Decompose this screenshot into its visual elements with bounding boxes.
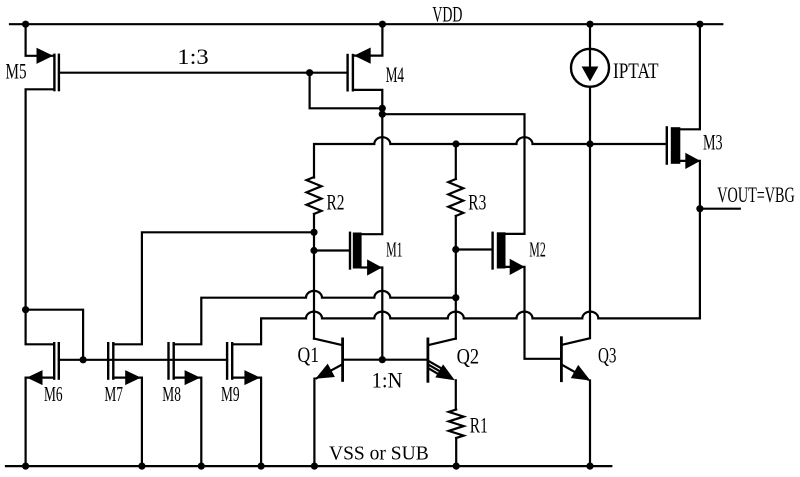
transistor M9 source arrow <box>244 370 260 385</box>
transistor M9 channel bar <box>231 343 233 378</box>
transistor Q3 base bar <box>560 338 563 381</box>
wire: common gate bus M6-M9 <box>59 359 227 361</box>
junction: node / M2 gate <box>452 246 459 253</box>
svg-text:M2: M2 <box>529 237 546 261</box>
wire: M7 source to VSS <box>113 378 141 467</box>
wire: M8 source to VSS <box>174 378 202 467</box>
wire: M8 drain to node A upper bus (with hops) <box>174 291 456 344</box>
wire: M1 source down to Q1/Q2 base line <box>362 268 383 360</box>
junction: R1 / VSS <box>453 463 460 470</box>
transistor Q1 collector <box>314 339 343 346</box>
transistor M4 gate bar <box>346 55 348 90</box>
wire: M5 drain down left rail to M6 drain <box>26 89 54 344</box>
svg-text:M4: M4 <box>386 62 405 87</box>
svg-text:VOUT=VBG: VOUT=VBG <box>717 182 795 207</box>
wire: VDD to M5 source <box>26 23 54 56</box>
junction: VDD / IPTAT <box>586 21 593 28</box>
wire: Q1-Q2 base line <box>343 359 428 361</box>
transistor M8 gate bar <box>167 343 169 378</box>
label M9 <box>221 382 240 406</box>
junction: M5 drain / M6 drain / M6 gate link <box>22 306 29 313</box>
junction: node / M1 gate <box>310 247 317 254</box>
wire: R3 top lead <box>455 144 457 179</box>
current source IPTAT arrow <box>582 52 599 82</box>
current source IPTAT bottom lead <box>589 87 591 144</box>
junction: line / R3 top <box>452 140 459 147</box>
label IPTAT <box>613 58 659 83</box>
transistor M5 channel bar <box>53 55 55 90</box>
wire: M6 drain-gate diode link <box>26 310 84 360</box>
transistor M5 source arrow <box>37 48 54 64</box>
wire: M3 drain up to VDD <box>680 23 700 129</box>
wire: VOUT stub <box>700 208 740 210</box>
junction: VOUT node <box>696 205 703 212</box>
label 1:3 <box>177 44 208 69</box>
svg-text:M9: M9 <box>221 382 240 406</box>
current source IPTAT lead from VDD <box>589 23 591 49</box>
junction: Q1 emitter / VSS <box>311 463 318 470</box>
junction: M4 drain / gate tie <box>379 105 386 112</box>
svg-text:IPTAT: IPTAT <box>613 58 659 83</box>
resistor R2 <box>307 177 322 214</box>
wire: R2 bottom node vertical down to Q1 collector <box>313 214 315 339</box>
junction: M6 gate on gate bus <box>80 356 87 363</box>
current source IPTAT circle <box>571 49 609 87</box>
label Q2 <box>457 344 480 369</box>
label Q1 <box>298 342 320 367</box>
transistor M8 channel bar <box>172 343 174 378</box>
transistor M7 gate bar <box>107 343 109 378</box>
wire: M9 drain to VOUT lower bus (with hops) <box>232 209 700 345</box>
transistor Q1 base bar <box>341 339 344 381</box>
power rail VDD (net VDD) <box>10 23 722 25</box>
transistor M7 channel bar <box>112 343 114 378</box>
transistor M7 source arrow <box>125 370 141 385</box>
svg-text:M3: M3 <box>703 130 723 155</box>
svg-text:R1: R1 <box>470 413 488 438</box>
svg-text:Q2: Q2 <box>457 344 480 369</box>
junction: VDD / M3 drain <box>696 21 703 28</box>
label R1 <box>470 413 488 438</box>
label M6 <box>44 382 63 406</box>
transistor M8 source arrow <box>185 370 201 385</box>
junction: M8 source / VSS <box>198 463 205 470</box>
transistor M5 gate bar <box>58 55 60 90</box>
transistor M1 gate bar <box>349 233 351 269</box>
wire: M2 gate line <box>456 248 492 250</box>
svg-text:M7: M7 <box>104 382 123 406</box>
wire: M3 source down to VOUT node <box>680 161 700 209</box>
label M2 <box>529 237 546 261</box>
transistor M6 gate bar <box>58 343 60 378</box>
label M3 <box>703 130 723 155</box>
junction: R2 bottom / feedback to M7 <box>310 229 317 236</box>
transistor Q2 emitter arrow <box>435 364 455 380</box>
svg-text:Q3: Q3 <box>598 343 617 368</box>
transistor M3 source arrow <box>685 153 700 169</box>
transistor M3 gate bar <box>666 127 668 163</box>
junction: M7 source / VSS <box>138 463 145 470</box>
junction: VDD / M5 source <box>22 21 29 28</box>
wire: VDD to M4 source <box>354 23 383 55</box>
label R3 <box>468 190 486 215</box>
label M8 <box>162 382 181 406</box>
junction: node / upper bus (M8 drain) <box>452 294 459 301</box>
label VDD <box>432 1 462 26</box>
svg-text:M1: M1 <box>386 237 403 261</box>
transistor Q3 emitter <box>561 364 588 379</box>
svg-text:Q1: Q1 <box>298 342 320 367</box>
transistor M2 gate bar <box>491 233 493 269</box>
junction: M6 source / VSS rail <box>22 463 29 470</box>
transistor M6 source arrow <box>27 370 43 385</box>
transistor Q1 emitter <box>317 364 343 378</box>
label 1:N <box>372 367 403 392</box>
label Q3 <box>598 343 617 368</box>
wire: Q3 emitter to VSS <box>589 381 591 467</box>
resistor R1 <box>449 410 464 439</box>
wire: gate tie-down to M4 drain node <box>310 73 383 109</box>
wire: M4 drain to M2 drain <box>382 114 524 234</box>
svg-text:R3: R3 <box>468 190 486 215</box>
label M5 <box>6 58 27 83</box>
label VSS or SUB <box>329 443 429 465</box>
junction: VDD / M4 source <box>379 21 386 28</box>
transistor Q3 collector and line to IPTAT <box>561 144 590 345</box>
junction: base line / M1 source <box>379 356 386 363</box>
wire: gate line M5 to M4 (1:3 mirror) <box>60 72 348 74</box>
wire: IPTAT distribution line R2-R3-IPTAT-M3 gate (with crossover hops) <box>314 137 666 177</box>
svg-text:M6: M6 <box>44 382 63 406</box>
transistor M2 source arrow <box>510 259 525 275</box>
junction: mirror gate / diode tie <box>306 69 313 76</box>
transistor M9 gate bar <box>226 343 228 378</box>
junction: M4 drain / link to M2 drain <box>379 111 386 118</box>
label M1 <box>386 237 403 261</box>
svg-text:M5: M5 <box>6 58 27 83</box>
transistor Q2 collector <box>428 339 456 346</box>
svg-text:VSS or SUB: VSS or SUB <box>329 443 429 465</box>
label R2 <box>327 189 345 214</box>
svg-text:VDD: VDD <box>432 1 462 26</box>
svg-text:1:N: 1:N <box>372 367 403 392</box>
wire: R3 bottom node vertical down to Q2 collector <box>455 216 457 339</box>
svg-text:M8: M8 <box>162 382 181 406</box>
wire: M1 gate line <box>314 249 350 251</box>
transistor Q2 base bar <box>426 339 429 381</box>
junction: M9 source / VSS <box>258 463 265 470</box>
wire: M4 drain down to M1 drain <box>354 90 383 234</box>
label M4 <box>386 62 405 87</box>
transistor M6 channel bar <box>53 343 55 378</box>
junction: Q3 emitter / VSS <box>586 463 593 470</box>
wire: R1 to VSS <box>455 438 457 466</box>
svg-text:1:3: 1:3 <box>177 44 208 69</box>
transistor Q3 emitter arrow <box>571 365 591 381</box>
junction: line / IPTAT output <box>586 140 593 147</box>
wire: M2 source down to Q3 base <box>505 267 561 359</box>
label M7 <box>104 382 123 406</box>
svg-text:R2: R2 <box>327 189 345 214</box>
ground rail VSS (net VSS/SUB) <box>6 465 611 467</box>
transistor M2 channel bar <box>497 232 506 268</box>
transistor M4 channel bar <box>352 55 354 90</box>
wire: Q1 emitter to VSS <box>313 379 315 467</box>
transistor Q2 emitter (triple stroke) <box>428 361 447 376</box>
wire: feedback line to M7 drain <box>113 232 314 344</box>
transistor M3 channel bar <box>671 127 681 164</box>
wire: M9 source to VSS <box>232 378 261 467</box>
resistor R3 <box>448 179 463 216</box>
transistor M4 source arrow <box>354 48 371 64</box>
wire: Q2 emitter to R1 <box>455 380 457 409</box>
transistor M1 source arrow <box>367 259 382 275</box>
label VOUT=VBG <box>717 182 795 207</box>
wire: M6 source to VSS <box>26 378 54 467</box>
transistor M1 channel bar <box>353 233 362 269</box>
transistor Q1 emitter arrow <box>316 364 335 379</box>
